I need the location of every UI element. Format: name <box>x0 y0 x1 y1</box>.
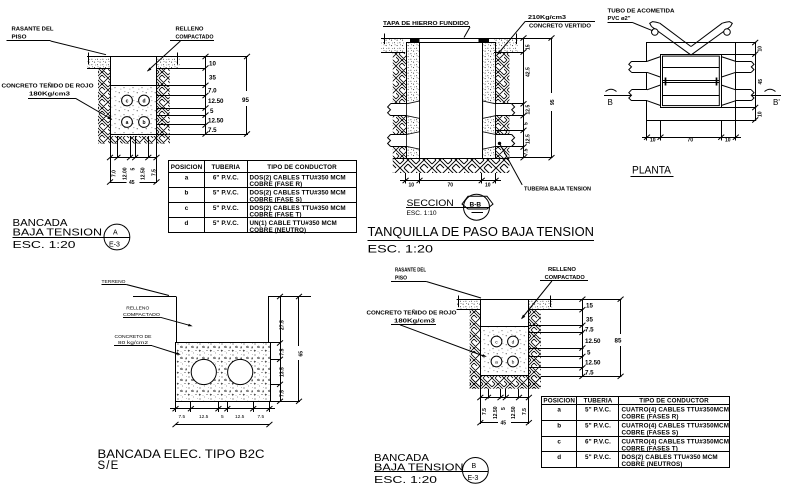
svg-text:CUATRO(4) CABLES TTU#350MCM: CUATRO(4) CABLES TTU#350MCM <box>622 407 730 414</box>
svg-text:CONCRETO DE: CONCRETO DE <box>115 334 152 339</box>
svg-text:5: 5 <box>524 122 530 125</box>
svg-text:5: 5 <box>501 407 507 410</box>
svg-text:RELLENO: RELLENO <box>548 267 576 273</box>
ground line A <box>87 56 248 58</box>
stipple bottom edge left A <box>87 68 110 70</box>
concrete wall right S <box>483 43 496 159</box>
ground stipple strip left S <box>381 38 405 52</box>
conduit c A <box>122 95 133 106</box>
leader concreto B <box>400 325 484 356</box>
dim chain right A <box>205 57 207 135</box>
svg-text:95: 95 <box>550 99 556 105</box>
conduit left B2C <box>191 359 216 384</box>
svg-text:ESC. 1:10: ESC. 1:10 <box>407 210 437 217</box>
svg-text:7.5: 7.5 <box>280 390 286 397</box>
svg-text:7.5: 7.5 <box>585 327 594 334</box>
bottom dim chain A <box>110 157 157 159</box>
svg-text:5: 5 <box>587 350 591 357</box>
pipe stub lower-right S <box>496 135 513 147</box>
svg-text:12.50: 12.50 <box>585 338 601 345</box>
ground end ticks S <box>384 34 386 45</box>
svg-text:ESC. 1:20: ESC. 1:20 <box>374 475 437 486</box>
seccion bottom dim <box>405 173 407 184</box>
svg-text:TERRENO: TERRENO <box>102 279 126 284</box>
svg-text:COBRE (FASE R): COBRE (FASE R) <box>250 181 303 188</box>
svg-text:PLANTA: PLANTA <box>632 165 672 177</box>
table A frame <box>169 161 357 233</box>
B2C overall bottom line <box>176 424 270 426</box>
svg-text:B-B: B-B <box>470 201 482 208</box>
svg-text:35: 35 <box>209 75 216 82</box>
ground line left seg <box>133 296 176 298</box>
ground stipple strip left B <box>457 299 481 310</box>
svg-text:TANQUILLA DE PASO BAJA TEN: TANQUILLA DE PASO BAJA TENSION <box>368 225 595 239</box>
soil hatch right wall B <box>529 310 541 389</box>
svg-text:E-3: E-3 <box>468 475 479 482</box>
svg-text:6" P.V.C.: 6" P.V.C. <box>585 438 611 445</box>
seccion right dim chain <box>523 38 525 158</box>
svg-text:10: 10 <box>209 61 216 68</box>
svg-text:5" P.V.C.: 5" P.V.C. <box>213 220 239 227</box>
svg-text:5" P.V.C.: 5" P.V.C. <box>585 407 611 414</box>
svg-text:a: a <box>557 407 561 414</box>
detail marker B/E-3 <box>463 458 489 484</box>
svg-text:7.5: 7.5 <box>585 370 594 377</box>
concrete wall left S <box>407 43 420 159</box>
bottom overall 45 B <box>480 422 498 424</box>
svg-text:12.00: 12.00 <box>123 167 129 180</box>
dim ticks right A <box>203 54 209 59</box>
ground stipple strip right B <box>529 299 553 310</box>
leader concreto A <box>76 98 113 119</box>
svg-text:COBRE (NEUTRO): COBRE (NEUTRO) <box>250 227 307 234</box>
svg-text:10: 10 <box>758 111 764 117</box>
svg-text:COBRE (FASES R): COBRE (FASES R) <box>622 414 679 421</box>
lid handles P <box>665 78 667 86</box>
conduit d B <box>508 336 519 347</box>
svg-text:S/E: S/E <box>98 460 120 472</box>
svg-text:5: 5 <box>131 168 137 171</box>
svg-text:COBRE (FASES S): COBRE (FASES S) <box>622 430 679 437</box>
svg-text:5" P.V.C.: 5" P.V.C. <box>585 423 611 430</box>
concrete block B2C <box>176 343 271 402</box>
svg-text:TUBERIA BAJA TENSION: TUBERIA BAJA TENSION <box>524 187 591 193</box>
svg-text:c: c <box>126 98 129 104</box>
svg-text:45: 45 <box>129 180 135 186</box>
svg-text:12.5: 12.5 <box>526 134 532 144</box>
svg-text:c: c <box>557 438 561 445</box>
svg-text:CONCRETO TEÑIDO DE ROJO: CONCRETO TEÑIDO DE ROJO <box>367 310 457 317</box>
svg-text:RASANTE DEL: RASANTE DEL <box>395 268 427 274</box>
svg-text:5: 5 <box>221 414 224 420</box>
svg-text:COMPACTADO: COMPACTADO <box>123 312 160 317</box>
bottom dim extensions B <box>480 376 482 425</box>
soil hatch right wall A <box>157 68 170 136</box>
side stub lower-left P <box>631 90 647 101</box>
pipe stub upper-right S <box>496 104 513 116</box>
dim extension lines right A <box>157 85 207 87</box>
svg-text:5" P.V.C.: 5" P.V.C. <box>213 205 239 212</box>
mid box P <box>661 55 722 108</box>
svg-text:PISO: PISO <box>12 35 27 41</box>
svg-text:10: 10 <box>725 138 731 144</box>
svg-text:7.5: 7.5 <box>152 169 158 176</box>
bottom dim chain B <box>480 397 529 399</box>
svg-text:7.0: 7.0 <box>112 170 118 177</box>
svg-text:CONCRETO VERTIDO: CONCRETO VERTIDO <box>529 24 591 30</box>
svg-text:CUATRO(4) CABLES TTU#350MCM: CUATRO(4) CABLES TTU#350MCM <box>622 438 730 445</box>
svg-text:RASANTE DEL: RASANTE DEL <box>12 27 55 33</box>
planta bottom dim <box>646 120 648 141</box>
svg-text:DOS(2) CABLES TTU#350 MCM: DOS(2) CABLES TTU#350 MCM <box>622 454 718 461</box>
svg-text:PISO: PISO <box>395 276 407 282</box>
ground line B <box>457 299 622 301</box>
B2C bottom dims <box>175 401 177 412</box>
svg-text:a: a <box>126 120 129 126</box>
pipe stub upper-left S <box>390 104 407 116</box>
side stub upper-right P <box>736 61 752 72</box>
svg-text:a: a <box>185 175 189 182</box>
soil hatch floor A <box>98 136 170 144</box>
svg-text:COBRE (FASES T): COBRE (FASES T) <box>622 445 678 452</box>
svg-text:d: d <box>142 98 145 104</box>
svg-text:b: b <box>512 359 515 365</box>
svg-text:CONCRETO TEÑIDO DE ROJO: CONCRETO TEÑIDO DE ROJO <box>2 83 94 90</box>
svg-text:d: d <box>557 454 561 461</box>
svg-text:13.5: 13.5 <box>280 367 286 377</box>
excavation box A <box>111 57 157 135</box>
svg-text:6" P.V.C.: 6" P.V.C. <box>213 175 239 182</box>
pipe stub lower-left S <box>390 135 407 147</box>
svg-text:7.5: 7.5 <box>258 414 265 420</box>
soil hatch left wall S <box>393 52 407 158</box>
conduit b B <box>508 356 519 367</box>
svg-text:12.50: 12.50 <box>493 406 499 419</box>
svg-text:E-3: E-3 <box>109 242 120 249</box>
svg-text:7.5: 7.5 <box>522 408 528 415</box>
trench wall right <box>268 297 270 344</box>
svg-text:95: 95 <box>242 97 249 104</box>
side stub lower-right P <box>736 90 752 101</box>
ground stipple strip right A <box>157 57 181 69</box>
svg-text:ESC. 1:20: ESC. 1:20 <box>13 240 76 251</box>
excavation box B <box>481 300 529 376</box>
ground end tick left B <box>458 296 460 308</box>
svg-text:COBRE (FASE S): COBRE (FASE S) <box>250 196 302 203</box>
svg-text:70: 70 <box>688 138 694 144</box>
svg-text:12.5: 12.5 <box>235 414 245 420</box>
svg-text:12.5: 12.5 <box>199 414 209 420</box>
ground line right seg <box>268 296 311 298</box>
conduit d A <box>139 95 150 106</box>
svg-text:BANCADA ELEC. TIPO B2C: BANCADA ELEC. TIPO B2C <box>98 449 265 461</box>
svg-text:35: 35 <box>586 317 593 324</box>
conduit b A <box>139 117 150 128</box>
svg-text:15: 15 <box>586 303 593 310</box>
cavity S <box>420 43 483 159</box>
svg-text:5" P.V.C.: 5" P.V.C. <box>213 190 239 197</box>
svg-text:7.5: 7.5 <box>280 348 286 355</box>
svg-text:7.5: 7.5 <box>179 414 186 420</box>
svg-text:B: B <box>472 463 477 470</box>
svg-text:COBRE (FASE T): COBRE (FASE T) <box>250 212 302 219</box>
lid plank lines P <box>663 67 720 69</box>
section line B left P <box>604 95 631 97</box>
ground end tick left A <box>88 53 90 65</box>
ground end tick right B <box>550 296 552 308</box>
soil hatch right wall S <box>496 52 510 158</box>
svg-text:d: d <box>185 220 189 227</box>
svg-text:TIPO DE CONDUCTOR: TIPO DE CONDUCTOR <box>639 397 709 404</box>
svg-text:PVC ø2": PVC ø2" <box>608 16 632 22</box>
diagonal acometida pipe left P <box>652 27 691 55</box>
pipe circle left P <box>652 29 659 36</box>
leader relleno A <box>148 41 181 71</box>
dim chain right B <box>582 299 584 376</box>
conduit right B2C <box>228 359 253 384</box>
svg-text:12.50: 12.50 <box>208 118 224 125</box>
svg-text:10: 10 <box>650 138 656 144</box>
svg-text:45: 45 <box>758 79 764 85</box>
conduit c B <box>491 336 502 347</box>
svg-text:80 kg/cm2: 80 kg/cm2 <box>118 340 149 345</box>
svg-text:TIPO DE CONDUCTOR: TIPO DE CONDUCTOR <box>267 164 337 171</box>
marker B-B <box>464 194 490 220</box>
soil hatch left wall B <box>470 310 481 389</box>
svg-text:180Kg/cm3: 180Kg/cm3 <box>394 319 435 325</box>
svg-text:A: A <box>113 230 118 237</box>
svg-text:RELLENO: RELLENO <box>126 306 149 311</box>
svg-text:10: 10 <box>758 46 764 52</box>
svg-text:b: b <box>185 190 189 197</box>
pipe circle right P <box>724 29 731 36</box>
svg-text:B: B <box>608 98 613 107</box>
leader rasante A <box>51 41 107 55</box>
svg-text:POSICION: POSICION <box>171 164 203 171</box>
stipple bottom edge right A extending to dim chain <box>157 68 207 70</box>
label TUBERIA BAJA TENSION w/ leader dot <box>498 142 501 145</box>
svg-text:15: 15 <box>526 44 532 50</box>
svg-text:ESC. 1:20: ESC. 1:20 <box>368 244 434 256</box>
svg-text:COBRE (NEUTROS): COBRE (NEUTROS) <box>622 461 683 468</box>
bottom overall 45 A <box>110 182 127 184</box>
ground stipple strip left A <box>87 57 110 69</box>
svg-text:CUATRO(4) CABLES TTU#350MCM: CUATRO(4) CABLES TTU#350MCM <box>622 423 730 430</box>
tapa (lid) S <box>411 39 489 43</box>
concrete envelope A <box>110 85 157 135</box>
svg-text:12.50: 12.50 <box>511 406 517 419</box>
inner lid frame P <box>663 56 720 106</box>
svg-text:7.5: 7.5 <box>482 408 488 415</box>
svg-text:b: b <box>557 423 561 430</box>
detail marker A/E-3 <box>104 224 130 250</box>
soil hatch floor S <box>393 158 510 173</box>
trench wall left <box>176 297 178 344</box>
svg-text:27.5: 27.5 <box>280 320 286 330</box>
ground end tick right A <box>177 53 179 65</box>
table B frame <box>542 397 730 468</box>
svg-text:12.50: 12.50 <box>585 360 601 367</box>
svg-text:TUBERIA: TUBERIA <box>584 397 613 404</box>
outer box P <box>647 43 736 121</box>
svg-text:5" P.V.C.: 5" P.V.C. <box>585 454 611 461</box>
svg-text:TUBO DE ACOMETIDA: TUBO DE ACOMETIDA <box>608 9 675 15</box>
svg-text:SECCION: SECCION <box>407 198 454 208</box>
ground line S <box>381 38 520 40</box>
svg-text:210Kg/cm3: 210Kg/cm3 <box>528 15 566 21</box>
svg-text:a: a <box>495 360 498 365</box>
conduit a B <box>491 356 502 367</box>
svg-text:7.0: 7.0 <box>208 88 217 95</box>
svg-text:BAJA TENSION: BAJA TENSION <box>374 463 464 474</box>
svg-text:10: 10 <box>485 183 491 189</box>
svg-text:65: 65 <box>299 351 305 357</box>
svg-text:b: b <box>142 120 145 126</box>
svg-text:7.5: 7.5 <box>208 127 217 134</box>
svg-text:12.5: 12.5 <box>526 105 532 115</box>
overall dim line right A <box>246 57 248 92</box>
svg-text:85: 85 <box>615 338 622 345</box>
svg-text:12.50: 12.50 <box>141 167 147 180</box>
svg-text:B': B' <box>773 98 780 107</box>
svg-text:c: c <box>185 205 189 212</box>
svg-text:RELLENO: RELLENO <box>176 27 204 33</box>
bottom dim extensions A <box>110 135 112 183</box>
svg-text:POSICION: POSICION <box>543 397 575 404</box>
svg-text:70: 70 <box>448 183 454 189</box>
stipple bottom edges B <box>457 309 481 311</box>
diagonal acometida pipe right P <box>691 27 730 55</box>
svg-text:COMPACTADO: COMPACTADO <box>176 35 214 41</box>
floor top line S <box>393 158 510 160</box>
concrete envelope B <box>480 327 529 376</box>
svg-text:d: d <box>512 339 515 345</box>
svg-text:5: 5 <box>210 108 214 115</box>
svg-text:10: 10 <box>409 183 415 189</box>
section line B' right P <box>752 95 781 97</box>
svg-text:45: 45 <box>501 421 507 427</box>
svg-text:12.50: 12.50 <box>208 98 224 105</box>
soil hatch floor B <box>470 376 541 389</box>
conduit a A <box>122 117 133 128</box>
planta right dim chain <box>755 43 757 121</box>
B2C right dim chain <box>280 297 282 402</box>
side stub upper-left P <box>631 61 647 72</box>
svg-text:7.5: 7.5 <box>524 148 530 155</box>
soil hatch left wall A <box>98 68 110 136</box>
svg-text:180Kg/cm3: 180Kg/cm3 <box>29 92 70 98</box>
svg-text:42.5: 42.5 <box>526 67 532 77</box>
svg-text:TUBERIA: TUBERIA <box>211 164 240 171</box>
ground stipple strip right S <box>494 38 518 52</box>
